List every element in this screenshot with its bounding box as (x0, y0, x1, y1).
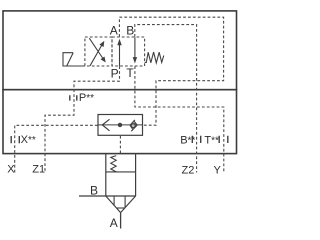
svg-text:B: B (90, 184, 98, 198)
svg-text:X: X (7, 164, 15, 176)
valve parallel-position arrow B to T (134, 37, 136, 58)
wire pilot line A loop (119, 17, 223, 125)
manifold lower block outline (3, 90, 237, 154)
check valve ball (131, 123, 135, 127)
valve body left square (85, 37, 112, 66)
svg-text:P**: P** (79, 92, 94, 104)
cartridge closing spring (111, 156, 116, 172)
shuttle / check valve box (98, 115, 143, 136)
valve crossed-position arrows (89, 38, 102, 66)
cartridge valve sleeve (106, 154, 136, 196)
check valve seat diamond (130, 120, 137, 131)
wire pilot line B loop to Z2 (135, 25, 197, 173)
svg-text:Y: Y (214, 165, 222, 177)
svg-text:X**: X** (21, 134, 36, 146)
svg-text:Z2: Z2 (182, 165, 195, 177)
wire pressure line P to Z1 (45, 66, 120, 172)
poppet seat chord (117, 207, 125, 209)
valve body right square (112, 37, 145, 66)
valve parallel-position arrow P to A (119, 45, 121, 67)
svg-text:P: P (111, 67, 119, 81)
svg-text:B**: B** (180, 135, 195, 147)
cartridge chamber divider (106, 171, 136, 173)
orifice plug ticks at Y (219, 136, 228, 143)
svg-text:Z1: Z1 (32, 164, 45, 176)
port line B into cartridge (79, 195, 136, 197)
shuttle internal flow line (98, 124, 143, 126)
wire X port line to shuttle (15, 125, 98, 172)
port line A from cartridge (120, 213, 122, 229)
svg-text:A: A (110, 24, 118, 38)
flow arrowhead (to X) (102, 119, 109, 131)
manifold top block outline (3, 11, 237, 90)
orifice plug ticks at Z2 (192, 136, 200, 143)
cartridge poppet cone (106, 196, 136, 213)
orifice plug ticks at P** (70, 95, 77, 100)
orifice plug ticks at X** (11, 136, 19, 143)
poppet seat verticals (114, 196, 125, 208)
solenoid Y1 (63, 53, 85, 66)
valve return spring (145, 52, 164, 63)
wire tank drain T to Y (135, 66, 224, 172)
junction node (118, 123, 122, 127)
svg-text:A: A (110, 216, 118, 230)
svg-text:T: T (126, 66, 134, 80)
svg-text:T**: T** (204, 135, 219, 147)
svg-text:B: B (126, 24, 134, 38)
wire pilot line to cartridge spring chamber (119, 136, 121, 154)
